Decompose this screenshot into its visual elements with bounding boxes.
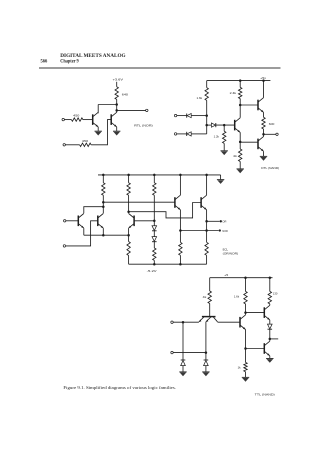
RTL base resistor 450 (B) [80,143,92,146]
DTL wire node to 1.2k [223,125,225,131]
ECL RC1 lower wire [102,195,104,213]
TTL ground (1k) [242,376,249,378]
ECL emitter resistor RE [128,235,130,241]
ECL rail junction F1 collector [179,174,182,177]
DTL wire 2.4k to node [239,99,241,105]
ECL NOR output wire [180,230,218,232]
DTL node series diode [205,124,208,127]
RTL transistor Q2 [110,114,112,125]
TTL node Q4 base tap [244,347,247,350]
ECL rail junction F2 collector [205,174,208,177]
TTL wire rail to 1.6k [245,278,247,292]
TTL phase splitter Q2 [239,317,241,328]
TTL output stub wire [270,338,278,340]
TTL input 1 wire [173,321,199,323]
ECL T3 base wire [134,220,154,222]
DTL output terminal [276,133,278,135]
DTL transistor Q1 [234,120,236,131]
ECL node NOR [179,229,182,232]
RTL ground (Q1) [95,130,102,132]
ECL wire bias to rail [153,260,155,264]
svg-text:Figure 9.1. Simplified diagram: Figure 9.1. Simplified diagrams of vario… [63,385,176,390]
DTL rail junction (Q2 collector) [262,79,265,82]
svg-text:450: 450 [82,139,89,143]
ECL node input collectors [102,205,105,208]
TTL totem-pole transistor Q3 [263,307,265,318]
TTL wire Q1 collector to Q2 base [218,321,241,323]
ECL wire rail to RC2 [128,175,130,183]
DTL Q2 collector wire [263,81,265,98]
ECL node bias [153,220,156,223]
ECL T1 emitter wire [83,228,85,235]
DTL wire D1 to node [191,115,207,117]
TTL emitter resistor 1k [244,362,247,371]
DTL input pull-up resistor 1.6k [205,88,208,101]
DTL output wire [264,133,276,135]
DTL wire rail to 1.6k [206,81,208,88]
RTL supply wire [116,82,118,87]
ECL collector resistor RC2 [127,183,130,195]
svg-text:1.2k: 1.2k [214,135,220,139]
ECL node NOR-base tap [102,201,105,204]
svg-text:ECL: ECL [223,247,229,251]
DTL input diode D1 [186,114,188,118]
TTL +5 rail [210,277,273,279]
RTL wire to Q1 collector [98,104,117,106]
ECL bias diode wire [153,231,155,237]
svg-text:4k: 4k [203,295,208,299]
ECL input A wire [66,220,78,222]
RTL collector resistor 640 [115,87,118,100]
DTL wire D3 to Q1 base [216,124,235,126]
DTL transistor Q3 [257,139,259,150]
ECL F2 emitter wire [206,210,208,243]
svg-text:566: 566 [41,59,48,65]
svg-text:-5.2V: -5.2V [147,269,157,273]
DTL ground (Q3) [260,155,267,157]
RTL Q1 emitter wire [97,127,99,131]
ECL input B terminal [63,245,65,247]
svg-text:450: 450 [73,114,80,118]
TTL node Q3 base tap [244,311,247,314]
svg-text:640: 640 [122,92,129,96]
ECL wire to OR follower base [129,203,202,218]
DTL input 2 terminal [174,133,176,135]
ECL common emitter rail [84,234,129,236]
ECL wire rail to RC1 [102,175,104,183]
DTL node Q1 emitter / Q3 base [239,141,242,144]
ECL rail junction F1 resistor [179,263,182,266]
TTL ground (D1) [179,371,186,373]
RTL input B wire [66,144,80,146]
ECL wire D2 to lower bias resistor [153,242,155,248]
RTL node: collector junction [115,103,118,106]
TTL base resistor 4k [208,291,211,304]
ECL node common emitter [102,234,105,237]
ECL OR follower F2 [200,197,202,208]
RTL output terminal [146,109,148,111]
TTL Q2 collector wire [245,304,247,315]
TTL multi-emitter input transistor Q1 [202,316,216,318]
DTL collector resistor 2.4k [239,87,242,98]
ECL input transistor T2 [97,216,99,227]
TTL output node [269,338,272,341]
svg-text:600: 600 [269,122,275,126]
ECL OR output terminal [220,220,222,222]
TTL Q4 emitter wire [269,356,271,359]
TTL node input 2 [205,351,208,354]
svg-text:+5v: +5v [260,76,266,80]
TTL wire rail to 130 [269,278,271,292]
TTL rail junction 1.6k [244,276,247,279]
DTL input 1 wire [177,115,187,117]
RTL Q2 emitter wire [116,127,118,131]
TTL Q2 emitter wire [245,330,247,363]
DTL wire to Q2 base [240,104,258,106]
svg-text:1.6k: 1.6k [234,294,240,298]
svg-text:4k: 4k [233,154,238,158]
ECL wire T1 collector [84,207,104,214]
RTL supply-to-output wire [116,99,118,112]
ECL rail junction bias lower [153,263,156,266]
TTL input 1 terminal [171,321,173,323]
DTL ground (4k) [237,168,244,170]
DTL ground (1.2k) [221,150,228,152]
DTL emitter resistor 4k [239,149,242,162]
ECL F1 collector wire [179,175,181,195]
ECL node emitter resistor [127,234,130,237]
TTL wire to Q4 base [246,348,265,350]
ECL bias wire [153,195,155,226]
ECL T2 emitter wire [102,228,104,235]
TTL emitter 2 wire [205,322,207,353]
TTL wire 1k to ground [245,372,247,378]
svg-text:1.6k: 1.6k [197,96,203,100]
ECL F1 pulldown resistor [179,242,182,255]
ECL ground symbol [217,179,224,181]
TTL clamp diode wire 2 [205,353,207,360]
ECL node OR [205,220,208,223]
TTL collector resistor 1.6k [244,291,247,304]
DTL wire node to series diode D3 [207,124,212,126]
svg-text:2.4k: 2.4k [230,91,237,95]
DTL Q1 collector wire [239,105,241,118]
TTL Q3 emitter wire [269,320,271,324]
DTL node input 1 [205,114,208,117]
TTL wire to Q3 base [246,312,265,314]
TTL clamp diode wire 1 [182,322,184,360]
ECL rail junction bias [153,174,156,177]
DTL +5v rail [207,80,271,82]
RTL input B terminal [63,144,65,146]
RTL input A wire [65,119,72,121]
RTL output node [115,109,118,112]
TTL output diode D3 [268,324,273,329]
DTL level-shift diode D3 [211,123,215,127]
header rule [39,67,281,69]
DTL input 2 wire [177,133,187,135]
svg-text:NOR: NOR [222,229,228,233]
svg-text:RTL (NOR): RTL (NOR) [134,123,153,127]
svg-text:+5: +5 [224,273,228,277]
DTL Q3 emitter wire [263,151,265,156]
TTL Q4 collector wire [269,339,271,341]
RTL transistor Q1 [92,114,94,125]
ECL bias diode D1 [152,226,157,231]
ECL wire to NOR follower base [103,201,175,203]
DTL wire 4k to ground [239,162,241,169]
RTL wire input B to Q2 base [91,120,111,145]
ECL F1 emitter wire [179,210,181,243]
DTL wire D2 to node [191,133,207,135]
ECL input A terminal [63,220,65,222]
TTL ground (D2) [202,371,209,373]
ECL collector resistor RC1 [102,183,105,195]
ECL reference transistor T3 (mirrored) [133,216,135,227]
svg-text:(OR/NOR): (OR/NOR) [223,252,239,256]
ECL T3 emitter wire [128,228,130,235]
ECL input B wire [66,221,98,246]
TTL clamp diode D2 [204,359,209,361]
ECL NOR follower F1 [174,197,176,208]
TTL Q3 collector wire [269,304,271,305]
ECL bottom rail (VEE) [129,263,207,265]
ECL bias resistor upper [153,183,156,195]
ECL ground stub wire [220,175,222,180]
TTL node input 1 clamp [182,321,185,324]
DTL wire 1.2k to ground [223,143,225,150]
DTL base pulldown resistor 1.2k [223,131,226,143]
DTL node Q1 collector / Q2 base [239,104,242,107]
TTL wire rail to 4k [209,278,211,291]
TTL totem-pole transistor Q4 [263,343,265,354]
RTL input A terminal [62,118,64,120]
svg-text:1k: 1k [238,365,242,369]
ECL F2 pulldown resistor [205,242,208,255]
svg-text:DTL (NAND): DTL (NAND) [261,166,279,170]
DTL input 1 terminal [174,114,176,116]
TTL clamp diode D1 [181,359,186,361]
svg-text:Chapter 9: Chapter 9 [60,59,79,65]
DTL output node [262,133,265,136]
DTL wire rail to 2.4k [239,81,241,88]
DTL Q1 emitter wire [239,132,241,149]
svg-text:+3.6V: +3.6V [113,77,123,81]
ECL wire rail to bias resistor [153,175,155,183]
ECL junction NOR wire / F2 emitter [205,229,208,232]
DTL Q2 emitter wire [263,112,265,117]
svg-text:TTL (NAND): TTL (NAND) [255,393,275,397]
svg-text:130: 130 [273,292,278,296]
ECL node OR-base tap [127,210,130,213]
ECL top rail (VCC) [98,174,221,176]
ECL bias diode D2 [152,237,157,242]
DTL wire 600 to output node [263,129,265,137]
ECL NOR output terminal [219,229,221,231]
DTL emitter resistor 600 [262,117,265,129]
DTL rail junction (2.4k) [239,79,242,82]
svg-text:OR: OR [222,220,226,224]
ECL rail junction RC1 [102,174,105,177]
DTL input diode D2 [186,132,188,136]
TTL rail junction 130 [269,276,272,279]
ECL F2 collector wire [206,175,208,195]
DTL transistor Q2 [257,100,259,111]
RTL wire resistor to Q1 base [83,119,93,121]
ECL bias resistor lower [153,248,156,260]
TTL input 2 terminal [171,351,173,353]
RTL output wire [117,109,146,111]
TTL input 2 wire [173,352,206,354]
TTL wire 4k to Q1 base [209,304,211,317]
TTL collector resistor 130 [268,291,271,304]
ECL rail junction RC2 [127,174,130,177]
TTL ground (Q4) [266,358,273,360]
ECL input transistor T1 [77,216,79,227]
ECL OR output wire [207,220,220,222]
DTL input bus wire [206,100,208,133]
ECL RC2 lower wire [128,195,130,213]
DTL node pulldown [223,124,226,127]
RTL base resistor 450 (A) [71,118,83,121]
RTL ground (Q2) [113,130,120,132]
DTL wire to Q3 base [240,141,258,143]
